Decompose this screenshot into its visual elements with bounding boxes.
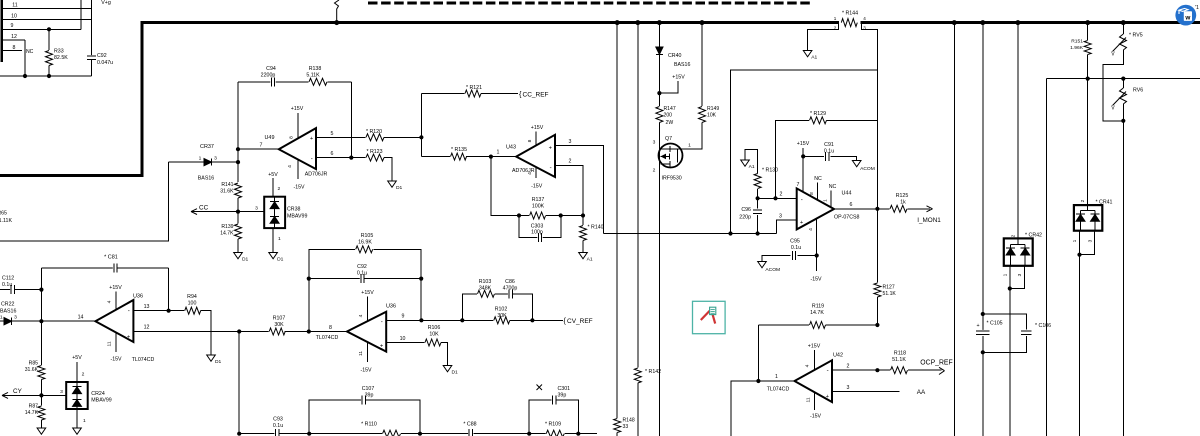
svg-text:TL074CD: TL074CD <box>132 357 155 363</box>
svg-text:+5V: +5V <box>72 355 82 361</box>
+15V stub to CR40/R147 node <box>659 81 678 93</box>
node: C301 right <box>576 432 580 436</box>
svg-text:11: 11 <box>806 397 812 402</box>
svg-text:12: 12 <box>144 325 150 331</box>
resistor R119 (14.7K) <box>809 321 826 330</box>
wire R121 row to CC_REF <box>421 93 466 95</box>
resistor R109 <box>546 429 565 436</box>
svg-text:+15V: +15V <box>531 125 544 131</box>
svg-text:C107: C107 <box>362 386 375 392</box>
svg-text:R105: R105 <box>361 233 374 239</box>
svg-text:1: 1 <box>1072 239 1078 242</box>
svg-text:D1: D1 <box>242 257 249 263</box>
svg-text:-15V: -15V <box>293 185 305 191</box>
svg-text:4: 4 <box>287 165 293 168</box>
svg-text:1.96K: 1.96K <box>1070 45 1084 51</box>
resistor R149 (10K) <box>701 23 703 106</box>
dual diode CR41 <box>1074 205 1102 231</box>
svg-text:CR22: CR22 <box>1 302 15 308</box>
svg-text:CR40: CR40 <box>668 53 682 59</box>
svg-text:30K: 30K <box>497 313 507 319</box>
svg-text:-: - <box>128 308 130 315</box>
svg-text:NC: NC <box>829 184 837 190</box>
U49 pin 5 wire <box>316 136 366 138</box>
svg-text:220p: 220p <box>739 215 751 221</box>
wire x=1087.7 to CR41 <box>1087 79 1089 206</box>
op-amp U43 (AD706JR, points left) <box>491 156 516 158</box>
op-amp U49 (AD706JR, points left) <box>279 128 316 169</box>
capacitor C303 (100p) parallel loop <box>519 216 561 238</box>
svg-text:* R123: * R123 <box>366 149 382 155</box>
svg-text:9: 9 <box>11 23 14 29</box>
node: +15V stub junction <box>657 91 661 95</box>
wire pin9 row <box>421 319 493 321</box>
svg-text:9: 9 <box>402 314 405 320</box>
svg-text:2: 2 <box>278 186 281 192</box>
node: R129/pin2 junction <box>773 196 777 200</box>
diode CR40 (BAS16) <box>656 47 663 54</box>
svg-text:BAS16: BAS16 <box>198 176 214 182</box>
svg-text:-: - <box>311 156 313 163</box>
svg-text:* C105: * C105 <box>987 321 1003 327</box>
svg-text:R148: R148 <box>623 418 635 424</box>
node: CR42 bottom junction <box>1008 286 1012 290</box>
thick bus wire (right segment after R144) <box>860 21 1200 24</box>
ground D1 (R106) <box>443 366 452 372</box>
svg-text:1: 1 <box>775 374 778 380</box>
resistor R123 <box>366 153 385 162</box>
svg-text:R141: R141 <box>221 182 233 188</box>
node: pin12/bottom junction <box>23 74 27 78</box>
op-amp U42 (TL074CD, points left) <box>758 380 794 382</box>
node: bus junction x=617.2 <box>615 20 620 25</box>
node: R120/R121/R135 junction <box>419 135 423 139</box>
svg-text:3: 3 <box>863 25 866 30</box>
U42 +15V stub pin 4 <box>813 350 815 371</box>
node: C92b right <box>419 277 423 281</box>
svg-text:348K: 348K <box>479 286 492 292</box>
svg-text:R85: R85 <box>29 361 39 367</box>
op-amp U36b (TL074CD, points left) <box>347 312 386 352</box>
resistor R106 (10K) <box>425 338 442 347</box>
svg-text:ACOM: ACOM <box>765 267 780 273</box>
svg-text:4: 4 <box>863 16 866 21</box>
wire to U36b apex <box>309 331 347 333</box>
svg-text:* C88: * C88 <box>463 422 476 428</box>
wire drop x=1046.3 <box>1045 79 1047 436</box>
RV5 bottom bypass wire <box>1103 50 1123 121</box>
svg-text:CR37: CR37 <box>200 144 214 150</box>
capacitor C301 (39p) loop with X mark <box>529 400 552 434</box>
svg-text:3: 3 <box>14 314 17 320</box>
svg-text:D1: D1 <box>396 185 403 191</box>
dashed bus line (top) <box>368 2 811 5</box>
svg-text:-: - <box>827 367 829 374</box>
dual diode CR42 <box>1004 238 1033 265</box>
node: bus x=954.3 <box>952 20 957 25</box>
node: CY/R85/R87 junction <box>39 393 43 397</box>
svg-text:R107: R107 <box>273 316 286 322</box>
svg-text:* C81: * C81 <box>104 255 118 261</box>
svg-text:8: 8 <box>809 192 815 195</box>
svg-text:MBAV99: MBAV99 <box>91 398 111 404</box>
node: U42 output junction <box>756 379 760 383</box>
svg-text:3: 3 <box>1017 273 1023 276</box>
svg-text:* C106: * C106 <box>1035 323 1051 329</box>
wire R119 left riser <box>757 325 759 381</box>
U49 +15V power stub pin 8 <box>297 113 299 138</box>
bottom row wire <box>309 433 597 435</box>
node: C92b left <box>307 277 311 281</box>
svg-text:U44: U44 <box>841 191 851 197</box>
svg-text:Q7: Q7 <box>665 136 672 142</box>
svg-text:BAS16: BAS16 <box>0 309 16 315</box>
svg-text:R151: R151 <box>1071 39 1083 45</box>
resistor R94 (100) <box>169 310 185 312</box>
svg-text:R119: R119 <box>812 304 824 310</box>
resistor R142 <box>633 368 642 384</box>
resistor R137 (100K) <box>519 215 529 217</box>
svg-text:10K: 10K <box>429 332 439 338</box>
U42 -15V stub pin 11 <box>813 392 815 410</box>
U44 +15V stub pin 7 <box>802 148 804 192</box>
wire pin 12 drop <box>24 40 26 76</box>
svg-text:* CR41: * CR41 <box>1096 200 1113 206</box>
svg-text:16.9K: 16.9K <box>358 240 372 246</box>
svg-text:MBAV99: MBAV99 <box>287 214 307 220</box>
svg-text:31.6K: 31.6K <box>220 189 234 195</box>
svg-text:CY: CY <box>13 388 23 395</box>
resistor R125 (1k) to I_MON1 <box>877 208 889 210</box>
svg-text:C91: C91 <box>824 142 834 148</box>
wire x=41.4 vertical <box>40 268 42 366</box>
node: C112/C81 junction <box>39 288 43 292</box>
resistor R129 feedback <box>776 120 810 198</box>
svg-text:8: 8 <box>527 139 533 142</box>
svg-text:C92: C92 <box>357 264 367 270</box>
resistor R85 (31.6K) <box>40 321 42 365</box>
capacitor C95 (0.1u) to ACOM <box>797 255 816 257</box>
diode CR22 (BAS16) <box>0 320 4 322</box>
svg-text:2: 2 <box>834 25 837 30</box>
svg-text:* R120: * R120 <box>366 129 382 135</box>
svg-text:8: 8 <box>329 325 332 331</box>
wire to CR24 pin 3 <box>41 394 66 396</box>
svg-text:IRF9530: IRF9530 <box>662 176 682 182</box>
svg-text:6: 6 <box>331 151 334 157</box>
resistor R151 (1.96K) <box>1087 23 1089 40</box>
node: CR41 bottom junction <box>1077 253 1081 257</box>
svg-text:U36: U36 <box>133 294 143 300</box>
svg-text:w: w <box>1184 14 1190 21</box>
capacitor C96 (220p) <box>757 198 759 208</box>
svg-text:* R121: * R121 <box>466 85 482 91</box>
resistor R141 (31.6K) <box>234 183 243 199</box>
capacitor C107 (39p) loop <box>309 400 362 434</box>
node: C301 left <box>527 432 531 436</box>
diode CR37 (BAS16) <box>204 159 212 166</box>
capacitor C94 (2200p) <box>270 77 275 86</box>
CR41 pin stubs to junction <box>1079 231 1081 255</box>
resistor R103 (348K) + capacitor C86 (4700p) branch <box>462 294 477 321</box>
svg-text:3: 3 <box>569 139 572 145</box>
U43 output riser to R137 <box>491 157 519 216</box>
svg-text:1: 1 <box>199 156 202 162</box>
wire R135 row <box>421 156 451 158</box>
node: R151 bottom <box>1086 77 1090 81</box>
svg-text:'1: '1 <box>1195 5 1199 11</box>
U42 pin 3 wire to AA <box>832 391 899 393</box>
wire row y=78.6 <box>1046 78 1200 80</box>
svg-text:C93: C93 <box>273 417 283 423</box>
svg-text:* R110: * R110 <box>361 422 377 428</box>
node: bus junction x=702 <box>700 20 705 25</box>
node: C96 bottom junction <box>756 231 760 235</box>
svg-text:0.1u: 0.1u <box>824 149 834 155</box>
svg-text:3: 3 <box>1088 239 1094 242</box>
svg-text:1: 1 <box>688 143 691 149</box>
svg-text:R94: R94 <box>187 294 197 300</box>
svg-text:3: 3 <box>214 156 217 162</box>
capacitor C91 (0.1u) to ACOM <box>803 155 824 157</box>
wire CR37 left approach <box>169 161 204 163</box>
svg-text:7: 7 <box>260 143 263 149</box>
svg-text:R139: R139 <box>221 224 233 230</box>
wire drop below CR41 <box>1079 255 1081 436</box>
ground A1 (R144 sense) <box>803 51 812 57</box>
node: bus x=1017.9 <box>1015 20 1020 25</box>
svg-text:U43: U43 <box>506 145 516 151</box>
svg-text:1: 1 <box>278 236 281 242</box>
wire C93 drop x=239.2 <box>238 332 240 434</box>
ground D1 (R94) <box>207 355 216 361</box>
U42 pin 2 wire <box>832 369 877 371</box>
svg-text:3: 3 <box>847 385 850 391</box>
svg-text:V: V <box>1111 106 1115 112</box>
svg-text:2: 2 <box>847 364 850 370</box>
U44 NC stub pin 1 <box>830 191 832 208</box>
svg-text:10: 10 <box>400 336 406 342</box>
svg-text:+15V: +15V <box>672 75 685 81</box>
svg-text:R102: R102 <box>495 307 508 313</box>
U36b pin 9 wire <box>386 319 421 321</box>
dual diode CR24 (MBAV99) <box>66 382 88 409</box>
resistor R144 (4-terminal, in bus) <box>841 18 858 28</box>
resistor R127 (51.1K) <box>873 283 882 298</box>
node: CR37/R141 junction <box>236 160 240 164</box>
wire drop x=1017.9 to CR42 <box>1017 23 1019 239</box>
wire drop x=1123.3 lower <box>1122 121 1124 436</box>
svg-text:8: 8 <box>13 45 16 51</box>
svg-text:1: 1 <box>0 314 3 320</box>
capacitor C106 loop <box>983 314 1027 329</box>
blue web annotation icon <box>1175 5 1196 26</box>
wire R144 sense to x=730 drop <box>731 70 878 234</box>
svg-text:1: 1 <box>497 150 500 156</box>
svg-text:-: - <box>550 165 552 172</box>
svg-text:* R129: * R129 <box>810 111 826 117</box>
svg-text:33: 33 <box>623 424 629 430</box>
node: feedback/pin6 junction <box>349 156 353 160</box>
ground ACOM (C91) <box>852 161 861 167</box>
node: R103 branch right <box>530 318 534 322</box>
svg-text:+: + <box>976 323 979 329</box>
resistor R105 (16.9K) feedback <box>309 249 355 331</box>
wire riser x=81 from pin 9 <box>80 0 82 29</box>
svg-text:R87: R87 <box>29 404 39 410</box>
ground D1 (CR38) <box>269 253 278 259</box>
svg-text:-: - <box>801 196 803 203</box>
svg-text:4: 4 <box>808 228 814 231</box>
capacitor C92 (0.047u) <box>87 55 96 60</box>
resistor R121 <box>465 89 482 98</box>
ground A1 (R130) <box>741 160 750 166</box>
svg-text:100K: 100K <box>532 204 545 210</box>
wire drop below CR42 <box>1009 289 1011 436</box>
svg-text:+15V: +15V <box>109 285 122 291</box>
svg-text:V+g: V+g <box>101 0 111 6</box>
svg-text:CC_REF: CC_REF <box>523 91 549 98</box>
ground D1 (R139) <box>234 253 243 259</box>
svg-text:1: 1 <box>823 199 829 202</box>
node: C96 top / pin2 junction <box>756 196 760 200</box>
node: CR22/pin14 junction <box>39 319 43 323</box>
svg-text:2: 2 <box>780 192 783 198</box>
svg-text:R106: R106 <box>428 325 441 331</box>
resistor R148 (33) <box>613 418 622 433</box>
svg-text:6: 6 <box>850 202 853 208</box>
svg-text:TL074CD: TL074CD <box>767 387 790 393</box>
svg-text:U36: U36 <box>386 304 396 310</box>
wire bus drop x=659.4 <box>658 23 660 47</box>
svg-text:AA: AA <box>917 389 926 396</box>
resistor R140 <box>582 216 584 226</box>
svg-text:D1: D1 <box>215 359 222 365</box>
svg-text:51.1K: 51.1K <box>883 291 897 297</box>
svg-text:R147: R147 <box>664 106 676 112</box>
U43 +15V stub pin 8 <box>535 132 537 147</box>
U36a -15V stub pin 11 <box>115 333 117 353</box>
svg-text:2: 2 <box>82 372 85 378</box>
pin 11 wire <box>2 8 92 10</box>
svg-text:U42: U42 <box>833 353 843 359</box>
svg-text:2: 2 <box>1011 234 1017 237</box>
svg-text:31.6K: 31.6K <box>25 367 39 373</box>
resistor R138 (5.11K) <box>309 77 328 86</box>
svg-text:C86: C86 <box>505 279 515 285</box>
transistor Q7 (IRF9530) <box>659 144 683 168</box>
node: R119/R127 junction <box>875 323 879 327</box>
svg-text:4: 4 <box>805 364 811 367</box>
svg-text:39p: 39p <box>365 393 374 399</box>
wire to R140 node <box>561 215 583 217</box>
capacitor C92b (0.1u) parallel <box>309 278 361 280</box>
CR38 +5V stub pin 2 <box>272 178 274 197</box>
op-amp U36a (TL074CD, points left) <box>95 300 133 342</box>
svg-text:R149: R149 <box>707 106 719 112</box>
node: C93 wire left end <box>237 432 241 436</box>
CR24 +5V stub pin 2 <box>76 362 78 382</box>
svg-text:2200p: 2200p <box>261 73 276 79</box>
resistor R87 (14.7K) <box>40 395 42 406</box>
svg-text:A1: A1 <box>811 55 817 61</box>
resistor R120 <box>366 133 385 142</box>
svg-text:14.7K: 14.7K <box>810 310 824 316</box>
resistor R102 (30K) <box>493 316 510 325</box>
svg-text:1k: 1k <box>900 200 906 206</box>
thick bus wire (left segment, L-shape) <box>0 23 839 176</box>
svg-text:200: 200 <box>664 113 673 119</box>
varistor RV6 <box>1122 79 1124 88</box>
svg-text:C112: C112 <box>2 276 14 282</box>
svg-text:5: 5 <box>331 131 334 137</box>
node: R140/pin2 junction <box>581 213 585 217</box>
node: C95 junction <box>815 253 819 257</box>
node: R137 right junction <box>559 213 563 217</box>
svg-text:R33: R33 <box>54 49 64 55</box>
svg-text:NC: NC <box>814 176 822 182</box>
U36b -15V stub pin 11 <box>367 342 369 362</box>
resistor R110 <box>382 429 401 436</box>
svg-text:NC: NC <box>26 49 34 55</box>
U44 output wire pin 6 <box>834 208 877 210</box>
resistor R107 (30K) <box>269 327 286 336</box>
svg-text:3: 3 <box>653 140 656 146</box>
R144 kelvin sense loop <box>808 24 839 50</box>
svg-text:1: 1 <box>83 418 86 424</box>
svg-text:10K: 10K <box>707 113 717 119</box>
node: output/R127 branch <box>875 207 879 211</box>
svg-text:11: 11 <box>107 341 113 346</box>
svg-text:V: V <box>1111 52 1115 58</box>
riser to U44 pin 3 <box>776 220 796 233</box>
wire to V+g (vertical riser x=91.5) <box>91 0 93 56</box>
U44 pin 4 stub to -15V <box>816 218 818 271</box>
svg-text:1: 1 <box>834 16 837 21</box>
svg-text:+5V: +5V <box>268 172 278 178</box>
U49 pin 6 wire <box>316 157 368 159</box>
svg-text:-15V: -15V <box>360 368 372 374</box>
svg-text:3: 3 <box>779 214 782 220</box>
bottom wire of IC block <box>0 75 92 77</box>
svg-text:A1: A1 <box>749 164 755 170</box>
svg-text:2: 2 <box>569 159 572 165</box>
node: bus x=1123.3 <box>1121 20 1126 25</box>
svg-text:CV_REF: CV_REF <box>567 318 593 325</box>
capacitor C112 (0.1u) <box>0 289 11 291</box>
svg-text:4: 4 <box>527 172 533 175</box>
pin 10 wire <box>2 19 92 21</box>
U36a pin 13 wire <box>133 310 168 312</box>
node: bus x=982.8 <box>980 20 985 25</box>
svg-text:4: 4 <box>358 314 364 317</box>
wire R120 to node <box>384 136 421 138</box>
svg-text:* R140: * R140 <box>588 225 604 231</box>
svg-text:TL074CD: TL074CD <box>316 335 339 341</box>
capacitor C105 (polarized) <box>981 312 985 316</box>
resistor R139 (14.7K) <box>237 212 239 224</box>
resistor R147 (200 2W) <box>655 106 664 123</box>
svg-text:5.11K: 5.11K <box>306 73 320 79</box>
annotation cursor box (teal) <box>693 301 726 333</box>
svg-text:C96: C96 <box>741 207 751 213</box>
svg-text:BAS16: BAS16 <box>674 62 690 68</box>
svg-text:* R144: * R144 <box>842 11 858 17</box>
ground ACOM (C95) <box>758 262 767 268</box>
svg-text:4: 4 <box>107 300 113 303</box>
U43 pin 2 wire <box>555 165 583 215</box>
svg-text:CR24: CR24 <box>91 391 105 397</box>
